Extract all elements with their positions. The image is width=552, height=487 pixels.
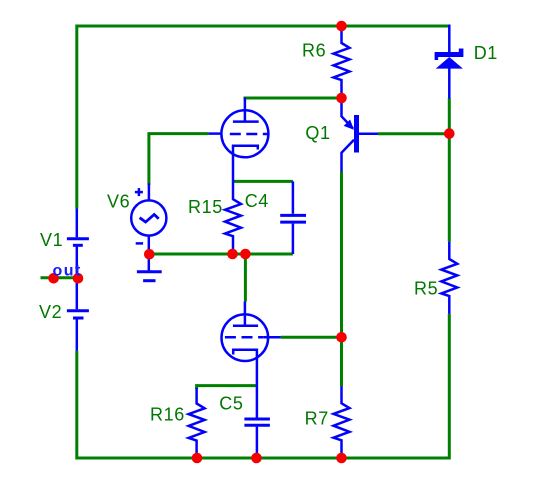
svg-text:C5: C5 — [219, 394, 243, 414]
svg-text:R15: R15 — [188, 197, 223, 217]
svg-text:out: out — [53, 263, 82, 280]
svg-text:R5: R5 — [414, 279, 438, 299]
svg-text:V2: V2 — [39, 302, 62, 322]
svg-text:C4: C4 — [245, 191, 269, 211]
svg-text:D1: D1 — [474, 43, 498, 63]
svg-text:R16: R16 — [150, 404, 185, 424]
svg-text:V6: V6 — [107, 192, 130, 212]
svg-text:R7: R7 — [305, 408, 329, 428]
svg-text:R6: R6 — [302, 41, 326, 61]
svg-text:V1: V1 — [40, 230, 63, 250]
svg-text:Q1: Q1 — [305, 123, 330, 143]
